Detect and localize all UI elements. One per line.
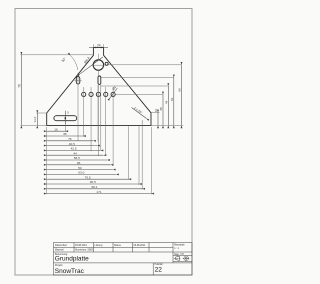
svg-text:171: 171 <box>96 190 101 194</box>
svg-text:44: 44 <box>164 100 168 104</box>
svg-text:Aluminium, 5083: Aluminium, 5083 <box>75 248 93 251</box>
svg-text:1 : 1: 1 : 1 <box>174 247 179 250</box>
svg-text:03.08.2011: 03.08.2011 <box>134 244 146 247</box>
svg-text:98,1: 98,1 <box>91 185 97 189</box>
svg-text:40,5: 40,5 <box>69 142 75 146</box>
svg-text:Lösung: Lösung <box>95 244 104 247</box>
svg-text:10: 10 <box>154 108 158 112</box>
svg-text:Material: Material <box>55 248 64 251</box>
svg-text:63,0: 63,0 <box>78 171 84 175</box>
svg-text:42,5: 42,5 <box>71 147 77 151</box>
svg-text:Sign. VH: Sign. VH <box>174 253 184 256</box>
svg-text:24: 24 <box>97 43 101 47</box>
svg-text:SnowTrac: SnowTrac <box>55 268 85 275</box>
svg-text:96: 96 <box>77 161 81 165</box>
svg-text:44: 44 <box>73 151 77 155</box>
svg-text:75: 75 <box>68 137 72 141</box>
svg-text:58,5: 58,5 <box>74 156 80 160</box>
svg-text:16: 16 <box>54 127 58 131</box>
svg-text:90,5: 90,5 <box>90 180 96 184</box>
svg-text:Grundplatte: Grundplatte <box>55 256 89 263</box>
svg-text:79,5: 79,5 <box>85 175 91 179</box>
svg-text:70: 70 <box>17 84 21 88</box>
svg-text:35: 35 <box>159 107 163 111</box>
svg-text:38: 38 <box>63 132 67 136</box>
svg-text:03.08.2011: 03.08.2011 <box>75 244 87 247</box>
svg-text:51: 51 <box>170 97 174 101</box>
svg-text:13,6: 13,6 <box>33 116 37 122</box>
svg-text:66: 66 <box>178 88 182 92</box>
svg-text:Datum/Zeit: Datum/Zeit <box>55 244 67 247</box>
svg-text:Projekt: Projekt <box>55 264 63 267</box>
svg-text:22: 22 <box>155 266 163 273</box>
svg-text:50: 50 <box>78 166 82 170</box>
svg-text:Status: Status <box>114 244 122 247</box>
